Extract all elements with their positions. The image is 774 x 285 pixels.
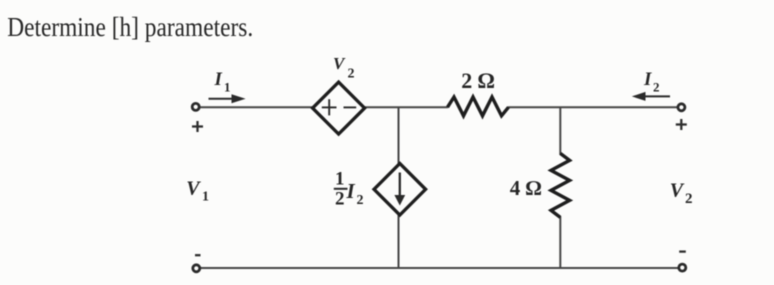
svg-text:4 Ω: 4 Ω bbox=[510, 176, 542, 200]
wire: top middle from source to 2-ohm resistor bbox=[363, 106, 448, 108]
svg-text:2: 2 bbox=[348, 67, 355, 82]
svg-text:V: V bbox=[186, 178, 201, 200]
wire: bottom horizontal bbox=[200, 267, 679, 269]
label V1 (left port voltage) bbox=[186, 178, 209, 205]
polarity minus (left port) bbox=[195, 254, 201, 256]
svg-text:1: 1 bbox=[202, 190, 209, 205]
svg-text:I: I bbox=[643, 69, 652, 90]
label 1/2 I2 coefficient fraction bbox=[334, 169, 364, 210]
svg-text:2: 2 bbox=[685, 191, 693, 207]
resistor 2-ohm (horizontal zigzag) bbox=[448, 97, 509, 116]
wire: middle vertical lower segment bbox=[398, 214, 400, 268]
polarity plus (right port) bbox=[676, 119, 687, 130]
svg-text:2: 2 bbox=[653, 79, 660, 94]
polarity minus (right port) bbox=[679, 250, 686, 252]
dependent current source 1/2 I2 (diamond with down arrow) bbox=[374, 164, 426, 216]
svg-text:1: 1 bbox=[224, 79, 231, 94]
node A: middle vertical wire upper segment bbox=[398, 107, 400, 165]
label I2 bbox=[643, 69, 660, 94]
wire: right branch upper segment bbox=[559, 107, 561, 154]
polarity plus (left port) bbox=[192, 121, 203, 132]
svg-text:1: 1 bbox=[335, 169, 345, 190]
current arrow I2 bbox=[632, 92, 670, 101]
wire: top right from 2-ohm resistor to right terminal bbox=[508, 106, 679, 108]
svg-text:I: I bbox=[346, 179, 356, 203]
svg-text:I: I bbox=[214, 69, 223, 90]
svg-text:V: V bbox=[333, 54, 346, 73]
terminal: top-right bbox=[678, 104, 685, 111]
terminal: top-left bbox=[192, 103, 199, 110]
terminal: bottom-left bbox=[193, 265, 200, 272]
svg-text:2 Ω: 2 Ω bbox=[461, 68, 495, 93]
dependent voltage source V2 (diamond with plus-minus) bbox=[313, 82, 365, 134]
resistor 4-ohm (vertical zigzag) bbox=[551, 153, 570, 217]
label V2 (right port voltage) bbox=[670, 179, 693, 206]
svg-text:2: 2 bbox=[357, 193, 364, 208]
svg-text:V: V bbox=[670, 179, 685, 201]
svg-text:2: 2 bbox=[335, 189, 345, 210]
label I1 bbox=[214, 69, 231, 94]
wire: right branch lower segment bbox=[559, 217, 561, 269]
svg-text:Determine [h] parameters.: Determine [h] parameters. bbox=[7, 12, 253, 42]
label V2 above source bbox=[333, 54, 355, 82]
wire: top-left horizontal from terminal to source bbox=[199, 106, 314, 108]
current arrow I1 bbox=[209, 94, 246, 103]
terminal: bottom-right bbox=[679, 264, 686, 271]
